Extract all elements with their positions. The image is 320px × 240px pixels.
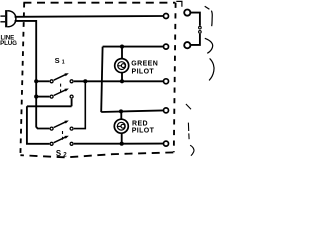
svg-text:PILOT: PILOT [132, 128, 155, 135]
terminal T1 [164, 14, 169, 19]
svg-text:1: 1 [62, 60, 65, 66]
right box dashed outline segment h5 [187, 123, 190, 140]
wire: green lamp top lead [121, 47, 123, 59]
right box corner mark top-left [176, 1, 182, 6]
svg-text:GREEN: GREEN [131, 60, 158, 67]
label S1 [55, 56, 65, 65]
wire: top rail from plug to terminal T1 [15, 15, 164, 18]
terminal T2 [164, 44, 169, 49]
chassis dashed border bottom [20, 152, 173, 157]
wire: green top rail to terminal T2 [103, 46, 164, 48]
wire: S1 lower-right drop [71, 99, 73, 107]
junction dot green lamp bottom [120, 79, 124, 83]
svg-text:PILOT: PILOT [132, 68, 155, 75]
wire: red bottom rail from S2 lower-right to terminal T5 [74, 143, 163, 145]
svg-text:PLUG: PLUG [0, 40, 17, 47]
wire: drop from node A down to S2 upper-right contact [74, 81, 85, 128]
label S2 [56, 149, 67, 158]
junction dot red lamp top [119, 109, 123, 113]
wire: left branch down to S2 lower-left contact [27, 106, 50, 144]
chassis dashed border top [23, 2, 175, 4]
wire: green lamp bottom lead [121, 72, 123, 81]
terminal T3 [164, 79, 169, 84]
right box terminal RT2 [184, 42, 190, 48]
terminal T4 [164, 108, 169, 113]
switch S2 lower pole left contact [50, 142, 53, 145]
junction dot node A [83, 79, 87, 83]
svg-text:S: S [55, 56, 60, 65]
chassis dashed border left [20, 3, 24, 156]
wire: red top rail to terminal T4 [101, 110, 163, 112]
switch S2 lower pole right contact [70, 142, 73, 145]
wire: horizontal run from S1 lower drop to left branch [27, 105, 72, 107]
plug prong upper [0, 15, 5, 17]
junction dot on main vertical to S1 upper [34, 79, 38, 83]
wire: S1 upper-right to green bottom rail and terminal T3 [74, 80, 163, 82]
wire: red lamp top lead [120, 111, 122, 119]
right box dashed outline segment h6 [190, 145, 194, 156]
right box dashed outline segment h4 [186, 104, 191, 109]
label LINE PLUG [0, 34, 17, 47]
right box dashed outline segment h3 [209, 58, 214, 80]
line plug P1 body [5, 10, 16, 27]
S1 mechanical link (dashed) [60, 84, 62, 95]
switch S1 upper pole blade with arrow [54, 73, 69, 80]
switch S1 upper pole right contact [70, 80, 73, 83]
S2 mechanical link (dashed) [62, 131, 64, 142]
chassis dashed border right [174, 3, 176, 153]
pilot lamp DS1 (green) [115, 59, 129, 73]
plug prong lower [0, 21, 5, 23]
wire: plug lower lead, main left vertical, corner to S2 upper-left [15, 21, 50, 129]
interlock contact circle upper [199, 26, 202, 29]
wire: red lamp bottom lead [121, 133, 123, 144]
right box terminal RT1 [184, 10, 190, 16]
switch S2 lower pole blade with arrow [54, 136, 69, 143]
junction dot red lamp bottom [120, 142, 124, 146]
wire: main vertical to S1 upper-left contact [36, 80, 49, 82]
right box dashed outline segment h1 [205, 6, 213, 26]
switch S1 lower pole left contact [50, 95, 53, 98]
label RED PILOT [132, 120, 155, 134]
switch S1 upper pole left contact [50, 80, 53, 83]
switch S2 upper pole right contact [70, 127, 73, 130]
junction dot on main vertical to S1 lower [34, 95, 38, 99]
switch S1 lower pole right contact [70, 95, 73, 98]
svg-text:RED: RED [132, 120, 148, 127]
switch S2 upper pole left contact [50, 127, 53, 130]
wire: main vertical to S1 lower-left contact [36, 96, 49, 98]
interlock contact circle lower [199, 31, 202, 34]
label GREEN PILOT [131, 60, 158, 75]
switch S1 lower pole blade with arrow [54, 89, 69, 96]
wire: RT1 to interlock chain [190, 13, 200, 26]
terminal T5 [164, 141, 169, 146]
pilot lamp DS2 (red) [114, 119, 128, 133]
wire: mid vertical from green top rail down to red top rail [101, 47, 102, 113]
right box dashed outline segment h2 [205, 38, 213, 53]
wire: chain to RT2 [190, 34, 200, 45]
switch S2 upper pole blade with arrow [54, 121, 69, 128]
junction dot green lamp top [120, 45, 124, 49]
